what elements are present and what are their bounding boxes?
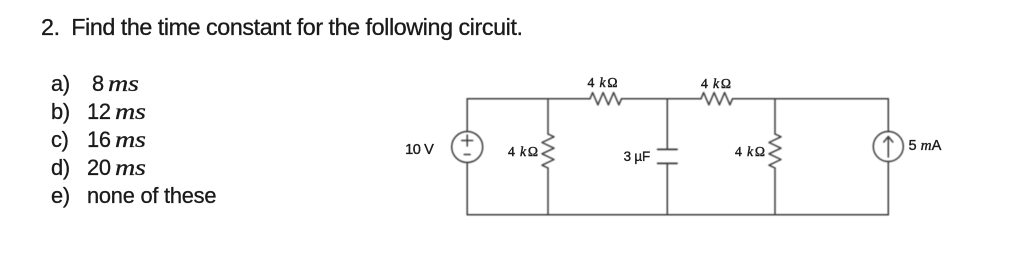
resistor R2 4k (top left horizontal) xyxy=(590,93,622,105)
options list xyxy=(51,70,216,210)
svg-text:10 V: 10 V xyxy=(405,142,434,158)
svg-text:4kΩ: 4kΩ xyxy=(701,76,731,91)
current source I1 5mA xyxy=(873,132,903,162)
resistor R4 4k (top right horizontal) xyxy=(701,93,733,105)
resistor R3 4k (right vertical) xyxy=(769,134,781,168)
svg-text:4kΩ: 4kΩ xyxy=(588,75,618,90)
wire capacitor branch bottom xyxy=(666,163,668,214)
wire right branch bottom xyxy=(887,162,889,215)
wire right branch top xyxy=(887,99,889,132)
wire branch node B top xyxy=(547,99,549,134)
wire branch node C bottom xyxy=(774,168,776,215)
title xyxy=(41,14,523,41)
wire branch node B bottom xyxy=(547,168,549,215)
capacitor C1 3uF xyxy=(658,149,678,163)
wire bottom rail xyxy=(467,214,888,216)
wire left branch bottom xyxy=(466,163,468,215)
wire capacitor branch top xyxy=(666,99,668,150)
svg-text:4kΩ: 4kΩ xyxy=(735,144,765,159)
resistor R1 4k (left vertical) xyxy=(542,134,554,168)
wire top rail left segment xyxy=(467,98,590,100)
wire left branch top xyxy=(466,99,468,132)
svg-text:4kΩ: 4kΩ xyxy=(508,144,538,159)
svg-text:5 mA: 5 mA xyxy=(909,137,942,154)
voltage source V1 10V xyxy=(452,132,483,163)
svg-text:3 µF: 3 µF xyxy=(624,149,650,164)
wire branch node C top xyxy=(774,99,776,134)
wire top rail middle segment xyxy=(622,98,702,100)
wire top rail right segment xyxy=(733,98,889,100)
